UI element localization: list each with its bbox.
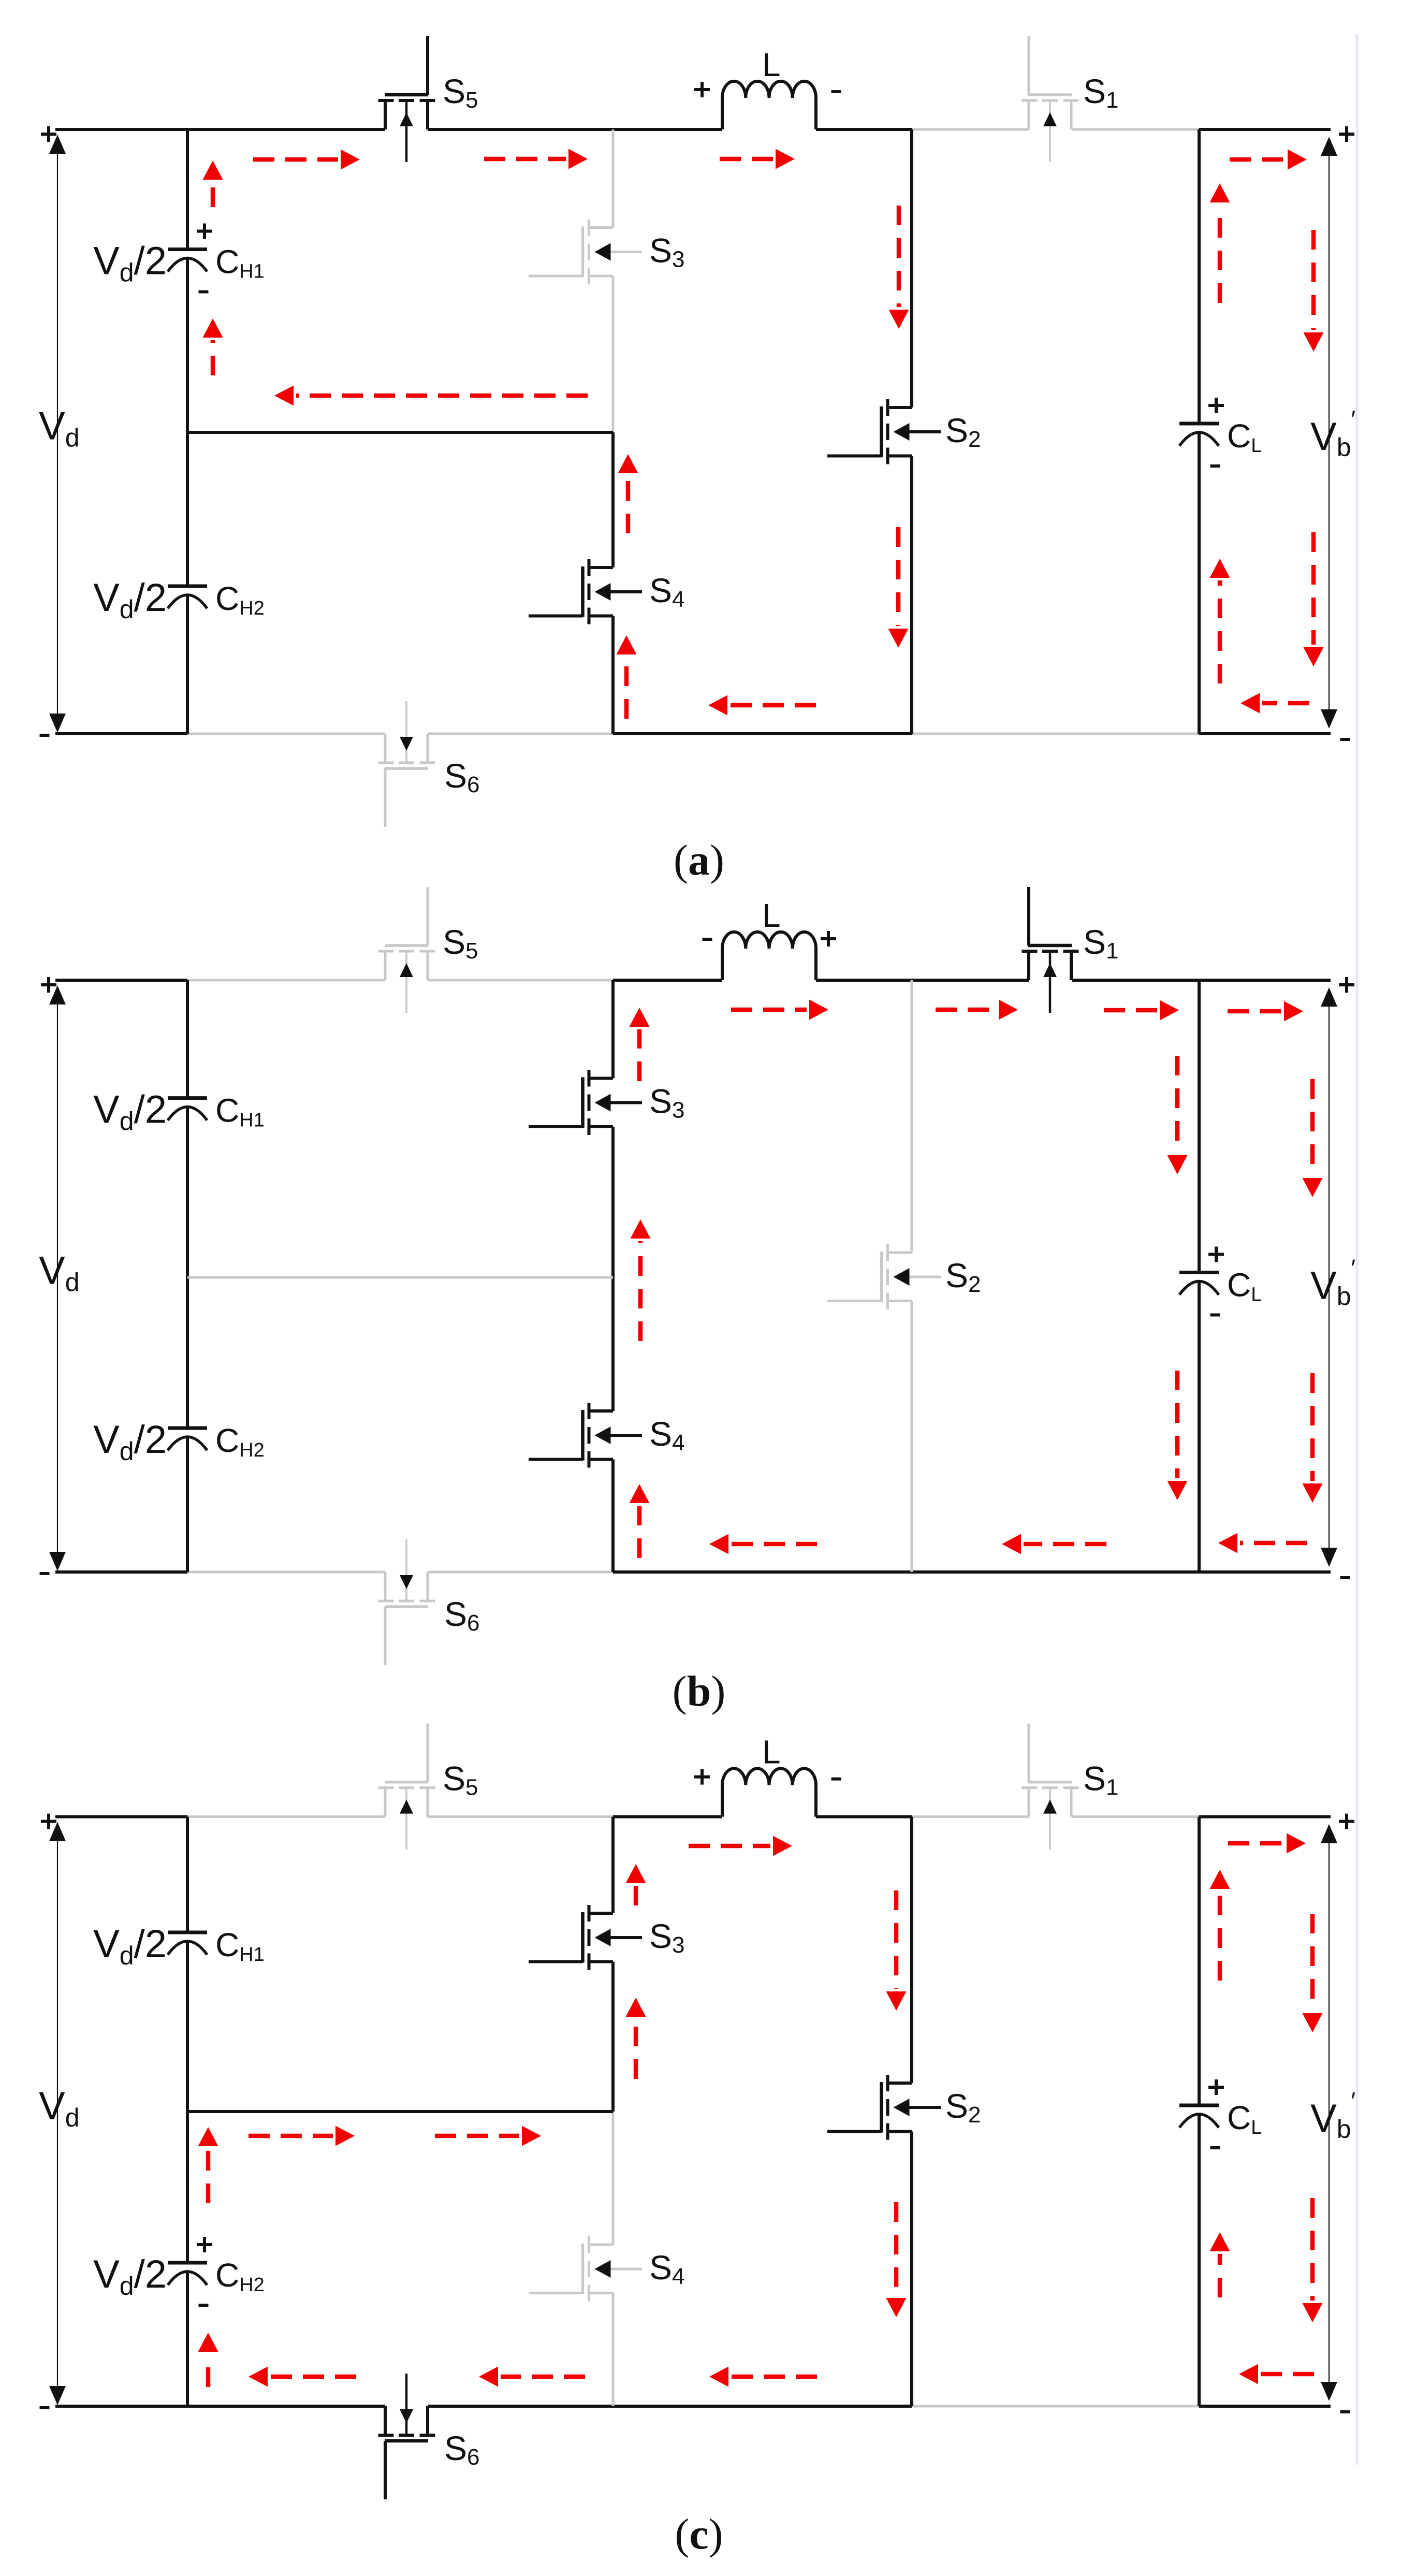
svg-text:Vd/2: Vd/2 [93,1088,167,1136]
wire top rail (c) 362-744 [187,1815,385,1818]
transistor S1 (c) [1022,1724,1079,1850]
transistor S3 (b) [529,1070,642,1136]
current flow arrow (a) #15 [1210,559,1230,683]
node - (bottom left) [40,1572,50,1575]
cap + mark [1208,1247,1224,1262]
svg-text:S5: S5 [443,72,478,113]
current flow arrow (a) #3 [720,149,795,169]
current flow arrow (c) #10 [198,2333,218,2387]
wire bottom rail (c) 826-1761 [428,2405,912,2408]
current flow arrow (c) #4 [435,2126,541,2146]
current flow arrow (a) #6 [708,695,816,716]
wire CL branch lower (a) [1198,432,1201,734]
svg-text:CH2: CH2 [215,1422,265,1461]
wire CL branch upper (b) [1198,980,1201,1273]
current flow arrow (c) #7 [709,2367,817,2387]
current flow arrow (b) #5 [1218,1533,1307,1553]
svg-text:Vb′: Vb′ [1310,1255,1355,1311]
capacitor CH2 (b) [168,1428,207,1450]
wire CL branch lower (b) [1198,1282,1201,1573]
svg-text:S6: S6 [444,1595,480,1636]
transistor S5 (c) [378,1724,435,1850]
Vb' measurement arrow (c) [1321,1824,1337,2401]
wire top rail (c) 826-1184 [428,1815,613,1818]
transistor S2 (b) [827,1244,941,1309]
svg-text:S1: S1 [1083,923,1119,964]
wire left branch mid (a) [186,258,189,587]
current flow arrow (c) #17 [1303,1914,1323,2032]
current flow arrow (c) #13 [886,1890,907,2011]
wire top rail (c) 107-362 [55,1815,187,1818]
wire left branch mid (c) [186,1941,189,2263]
cap - mark [199,290,209,294]
wire S2 branch (c) 3509-4023 [910,1817,913,2083]
Vd measurement arrow (c) [49,1822,66,2405]
current flow arrow (b) #10 [630,1484,650,1558]
cap - mark [1210,1314,1220,1317]
cap - mark [1210,2146,1220,2149]
current flow arrow (c) #9 [198,2127,218,2203]
node + (top left) [41,977,56,993]
cap - mark [199,2304,209,2307]
svg-text:L: L [762,1734,781,1771]
current flow arrow (b) #14 [1303,1373,1323,1503]
svg-text:S2: S2 [945,2087,981,2128]
node - (bottom right) [1340,2410,1350,2413]
wire S2 branch (c) 4116-4647 [910,2132,913,2407]
transistor S6 (b) [378,1539,435,1665]
current flow arrow (a) #14 [1210,183,1230,303]
current flow arrow (c) #15 [1210,1870,1230,1981]
capacitor CH2 (c) [168,2263,207,2285]
svg-text:S4: S4 [649,1415,685,1456]
current flow arrow (b) #11 [1167,1056,1188,1174]
wire middle node (a) [187,431,613,434]
wire left branch lower (a) [186,595,189,734]
capacitor CH1 (b) [168,1098,207,1120]
capacitor CH1 (c) [168,1932,207,1955]
node + (top right) [1339,126,1354,142]
wire left branch upper (b) [186,980,189,1098]
current flow arrow (c) #14 [886,2202,907,2317]
current flow arrow (c) #11 [626,1864,646,1905]
capacitor CL (b) [1179,1273,1219,1295]
svg-text:(a): (a) [674,836,724,884]
svg-text:Vd/2: Vd/2 [93,576,167,624]
capacitor CH2 (a) [168,586,207,608]
wire top rail (b) 826-1184 [428,979,613,982]
inductor polarity marks [694,1769,710,1785]
current flow arrow (a) #17 [1304,532,1324,666]
current flow arrow (b) #13 [1167,1371,1188,1500]
wire bottom rail (a) 826-1184 [428,733,613,735]
svg-text:CL: CL [1227,417,1262,457]
Vd measurement arrow (b) [49,985,66,1571]
wire top rail (c) 2070-2316 [1072,1815,1199,1818]
svg-text:S6: S6 [444,756,480,797]
svg-text:L: L [762,46,781,83]
wire bottom rail (c) 2316-2570 [1199,2405,1331,2408]
svg-text:CH1: CH1 [215,1092,265,1131]
wire top rail (a) 1761-1987 [912,128,1029,131]
cap + mark [197,224,212,239]
wire S3/S4 branch (a) 1190-1417 [611,616,615,734]
transistor S4 (a) [529,559,642,624]
svg-text:Vd: Vd [39,1249,80,1297]
current flow arrow (c) #6 [479,2367,585,2387]
inductor L (b) [722,932,816,980]
wire S3/S4 branch (a) 533-835 [612,276,615,432]
current flow arrow (c) #2 [1228,1833,1306,1854]
wire bottom rail (b) 107-362 [55,1570,187,1574]
current flow arrow (a) #13 [617,635,637,719]
wire bottom rail (a) 2316-2570 [1199,732,1331,735]
wire S3/S4 branch (c) 4428-4647 [612,2293,615,2407]
cap + mark [1208,2079,1224,2095]
transistor S1 (b) [1022,887,1079,1013]
current flow arrow (b) #4 [1228,1001,1303,1022]
current flow arrow (a) #5 [274,386,588,406]
current flow arrow (c) #3 [249,2126,355,2146]
wire bottom rail (a) 1761-2316 [912,733,1199,735]
svg-text:S4: S4 [649,571,685,612]
node - (bottom left) [40,734,50,737]
transistor S5 (b) [378,887,435,1013]
wire bottom rail (c) 107-744 [55,2405,385,2408]
svg-text:S3: S3 [649,1917,685,1958]
wire top rail (c) 1184-1395 [613,1815,722,1818]
wire left branch upper (a) [186,129,189,250]
capacitor CH1 (a) [168,250,207,272]
wire top rail (b) 1184-1395 [613,979,722,982]
svg-text:S5: S5 [443,923,478,964]
current flow arrow (a) #11 [888,527,909,648]
inductor L (c) [722,1768,816,1816]
svg-text:CH2: CH2 [215,580,265,619]
capacitor CL (c) [1179,2105,1219,2128]
svg-text:S4: S4 [649,2248,685,2289]
svg-text:Vb′: Vb′ [1310,2087,1355,2144]
transistor S2 (a) [827,399,941,464]
inductor polarity marks [703,938,712,941]
current flow arrow (b) #3 [1104,1000,1179,1021]
current flow arrow (a) #2 [484,149,588,169]
svg-text:CH1: CH1 [215,243,265,283]
wire S2 branch (a) 880-1417 [910,456,913,734]
wire top rail (b) 2070-2570 [1072,979,1331,982]
svg-text:S3: S3 [649,1082,685,1123]
current flow arrow (a) #1 [253,150,360,170]
wire bottom rail (b) 826-1184 [428,1571,613,1574]
wire S2 branch (a) 250-787 [910,129,913,407]
wire CL branch upper (c) [1198,1817,1201,2105]
svg-text:S3: S3 [649,231,685,272]
svg-text:S5: S5 [443,1759,478,1800]
wire left branch lower (c) [186,2272,189,2406]
wire top rail (a) 2070-2316 [1072,128,1199,131]
inductor L (a) [722,81,816,129]
current flow arrow (a) #16 [1304,230,1324,352]
current flow arrow (c) #8 [1239,2364,1314,2384]
transistor S1 (a) [1022,36,1079,162]
wire bottom rail (c) 1761-2316 [912,2405,1199,2408]
transistor S4 (c) [529,2236,642,2302]
node + (top right) [1339,1814,1354,1829]
node - (bottom right) [1340,738,1350,741]
transistor S3 (a) [529,220,642,285]
current flow arrow (a) #4 [1230,150,1307,170]
node - (bottom left) [40,2406,50,2409]
current flow arrow (a) #8 [203,161,223,207]
current flow arrow (b) #12 [1303,1079,1323,1197]
svg-text:S1: S1 [1083,1759,1119,1800]
svg-text:L: L [762,897,781,934]
node + (top right) [1339,977,1354,993]
wire bottom rail (b) 1184-2570 [613,1570,1331,1574]
transistor S6 (a) [378,701,435,827]
svg-text:S1: S1 [1083,72,1119,113]
svg-text:CH2: CH2 [215,2257,265,2296]
svg-text:Vd: Vd [39,404,80,453]
transistor S4 (b) [529,1403,642,1468]
current flow arrow (c) #12 [626,1998,646,2079]
wire left branch upper (c) [186,1817,189,1932]
svg-text:CL: CL [1227,2099,1262,2138]
svg-text:Vb′: Vb′ [1310,405,1355,462]
svg-text:(c): (c) [675,2510,723,2558]
page artifact line (lavender) [1356,34,1359,2465]
svg-text:S2: S2 [945,411,981,452]
wire top rail (a) 1576-1761 [816,128,912,131]
Vb' measurement arrow (a) [1321,137,1337,729]
wire bottom rail (a) 1184-1761 [613,732,912,735]
wire top rail (c) 1576-1761 [816,1815,912,1818]
wire left branch lower (b) [186,1437,189,1572]
svg-text:S2: S2 [945,1256,981,1297]
cap + mark [1208,398,1224,413]
Vb' measurement arrow (b) [1321,987,1337,1567]
wire bottom rail (b) 362-744 [187,1571,385,1574]
current flow arrow (a) #7 [1241,693,1309,714]
current flow arrow (a) #12 [618,454,638,533]
wire S3/S4 branch (a) 835-1096 [611,432,615,567]
wire middle node (c) [187,2110,613,2113]
wire top rail (a) 826-1395 [428,128,722,131]
wire S3/S4 branch (b) 1893-2082 [611,980,615,1079]
transistor S3 (c) [529,1905,642,1970]
current flow arrow (c) #18 [1303,2198,1323,2322]
node + (top left) [41,126,56,142]
wire S3/S4 branch (b) 2818-3036 [611,1460,615,1573]
current flow arrow (c) #1 [689,1836,792,1856]
wire S3/S4 branch (a) 250-440 [612,129,615,228]
Vd measurement arrow (a) [49,135,66,733]
current flow arrow (b) #9 [631,1219,651,1341]
svg-text:CH1: CH1 [215,1926,265,1966]
transistor S2 (c) [827,2075,941,2140]
node + (top left) [41,1814,56,1829]
svg-text:CL: CL [1227,1267,1262,1306]
wire CL branch upper (a) [1198,129,1201,424]
wire top rail (a) 107-744 [55,128,385,131]
cap + mark [197,2237,212,2252]
wire bottom rail (a) 362-744 [187,733,385,735]
wire top rail (b) 362-744 [187,979,385,982]
current flow arrow (b) #7 [709,1534,817,1554]
current flow arrow (a) #9 [203,318,223,375]
cap - mark [1210,464,1220,468]
wire S3/S4 branch (c) 3788-4078 [611,1962,615,2112]
svg-text:Vd: Vd [39,2084,80,2132]
wire S2 branch (b) 1893-2419 [911,980,913,1253]
inductor polarity marks [694,82,710,97]
wire S3/S4 branch (c) 4078-4335 [612,2112,615,2245]
current flow arrow (b) #2 [936,1000,1018,1020]
current flow arrow (a) #10 [889,206,909,329]
current flow arrow (b) #1 [731,1000,828,1020]
svg-text:Vd/2: Vd/2 [93,1922,167,1970]
svg-text:(b): (b) [673,1667,726,1715]
node - (bottom right) [1340,1576,1350,1579]
wire S3/S4 branch (c) 3509-3695 [611,1817,615,1913]
wire S3/S4 branch (b) 2176-2725 [611,1127,615,1411]
wire S2 branch (b) 2512-3036 [911,1301,913,1573]
wire top rail (a) 2316-2570 [1199,128,1331,131]
wire top rail (c) 1761-1987 [912,1815,1029,1818]
wire top rail (c) 2316-2570 [1199,1815,1331,1818]
wire middle node (b) [187,1276,613,1279]
capacitor CL (a) [1179,424,1219,446]
current flow arrow (b) #6 [1002,1534,1106,1554]
current flow arrow (b) #8 [630,1008,650,1081]
current flow arrow (c) #16 [1210,2232,1230,2297]
current flow arrow (c) #5 [249,2367,356,2387]
wire left branch mid (b) [186,1107,189,1428]
svg-text:S6: S6 [444,2429,480,2470]
wire top rail (b) 1576-1987 [816,979,1029,982]
transistor S5 (a) [378,36,435,162]
wire CL branch lower (c) [1198,2114,1201,2406]
svg-text:Vd/2: Vd/2 [93,1418,167,1466]
wire top rail (b) 107-362 [55,979,187,982]
svg-text:Vd/2: Vd/2 [93,239,167,287]
wire bottom rail (a) 107-362 [55,732,187,735]
svg-text:Vd/2: Vd/2 [93,2252,167,2301]
transistor S6 (c) [378,2374,435,2499]
